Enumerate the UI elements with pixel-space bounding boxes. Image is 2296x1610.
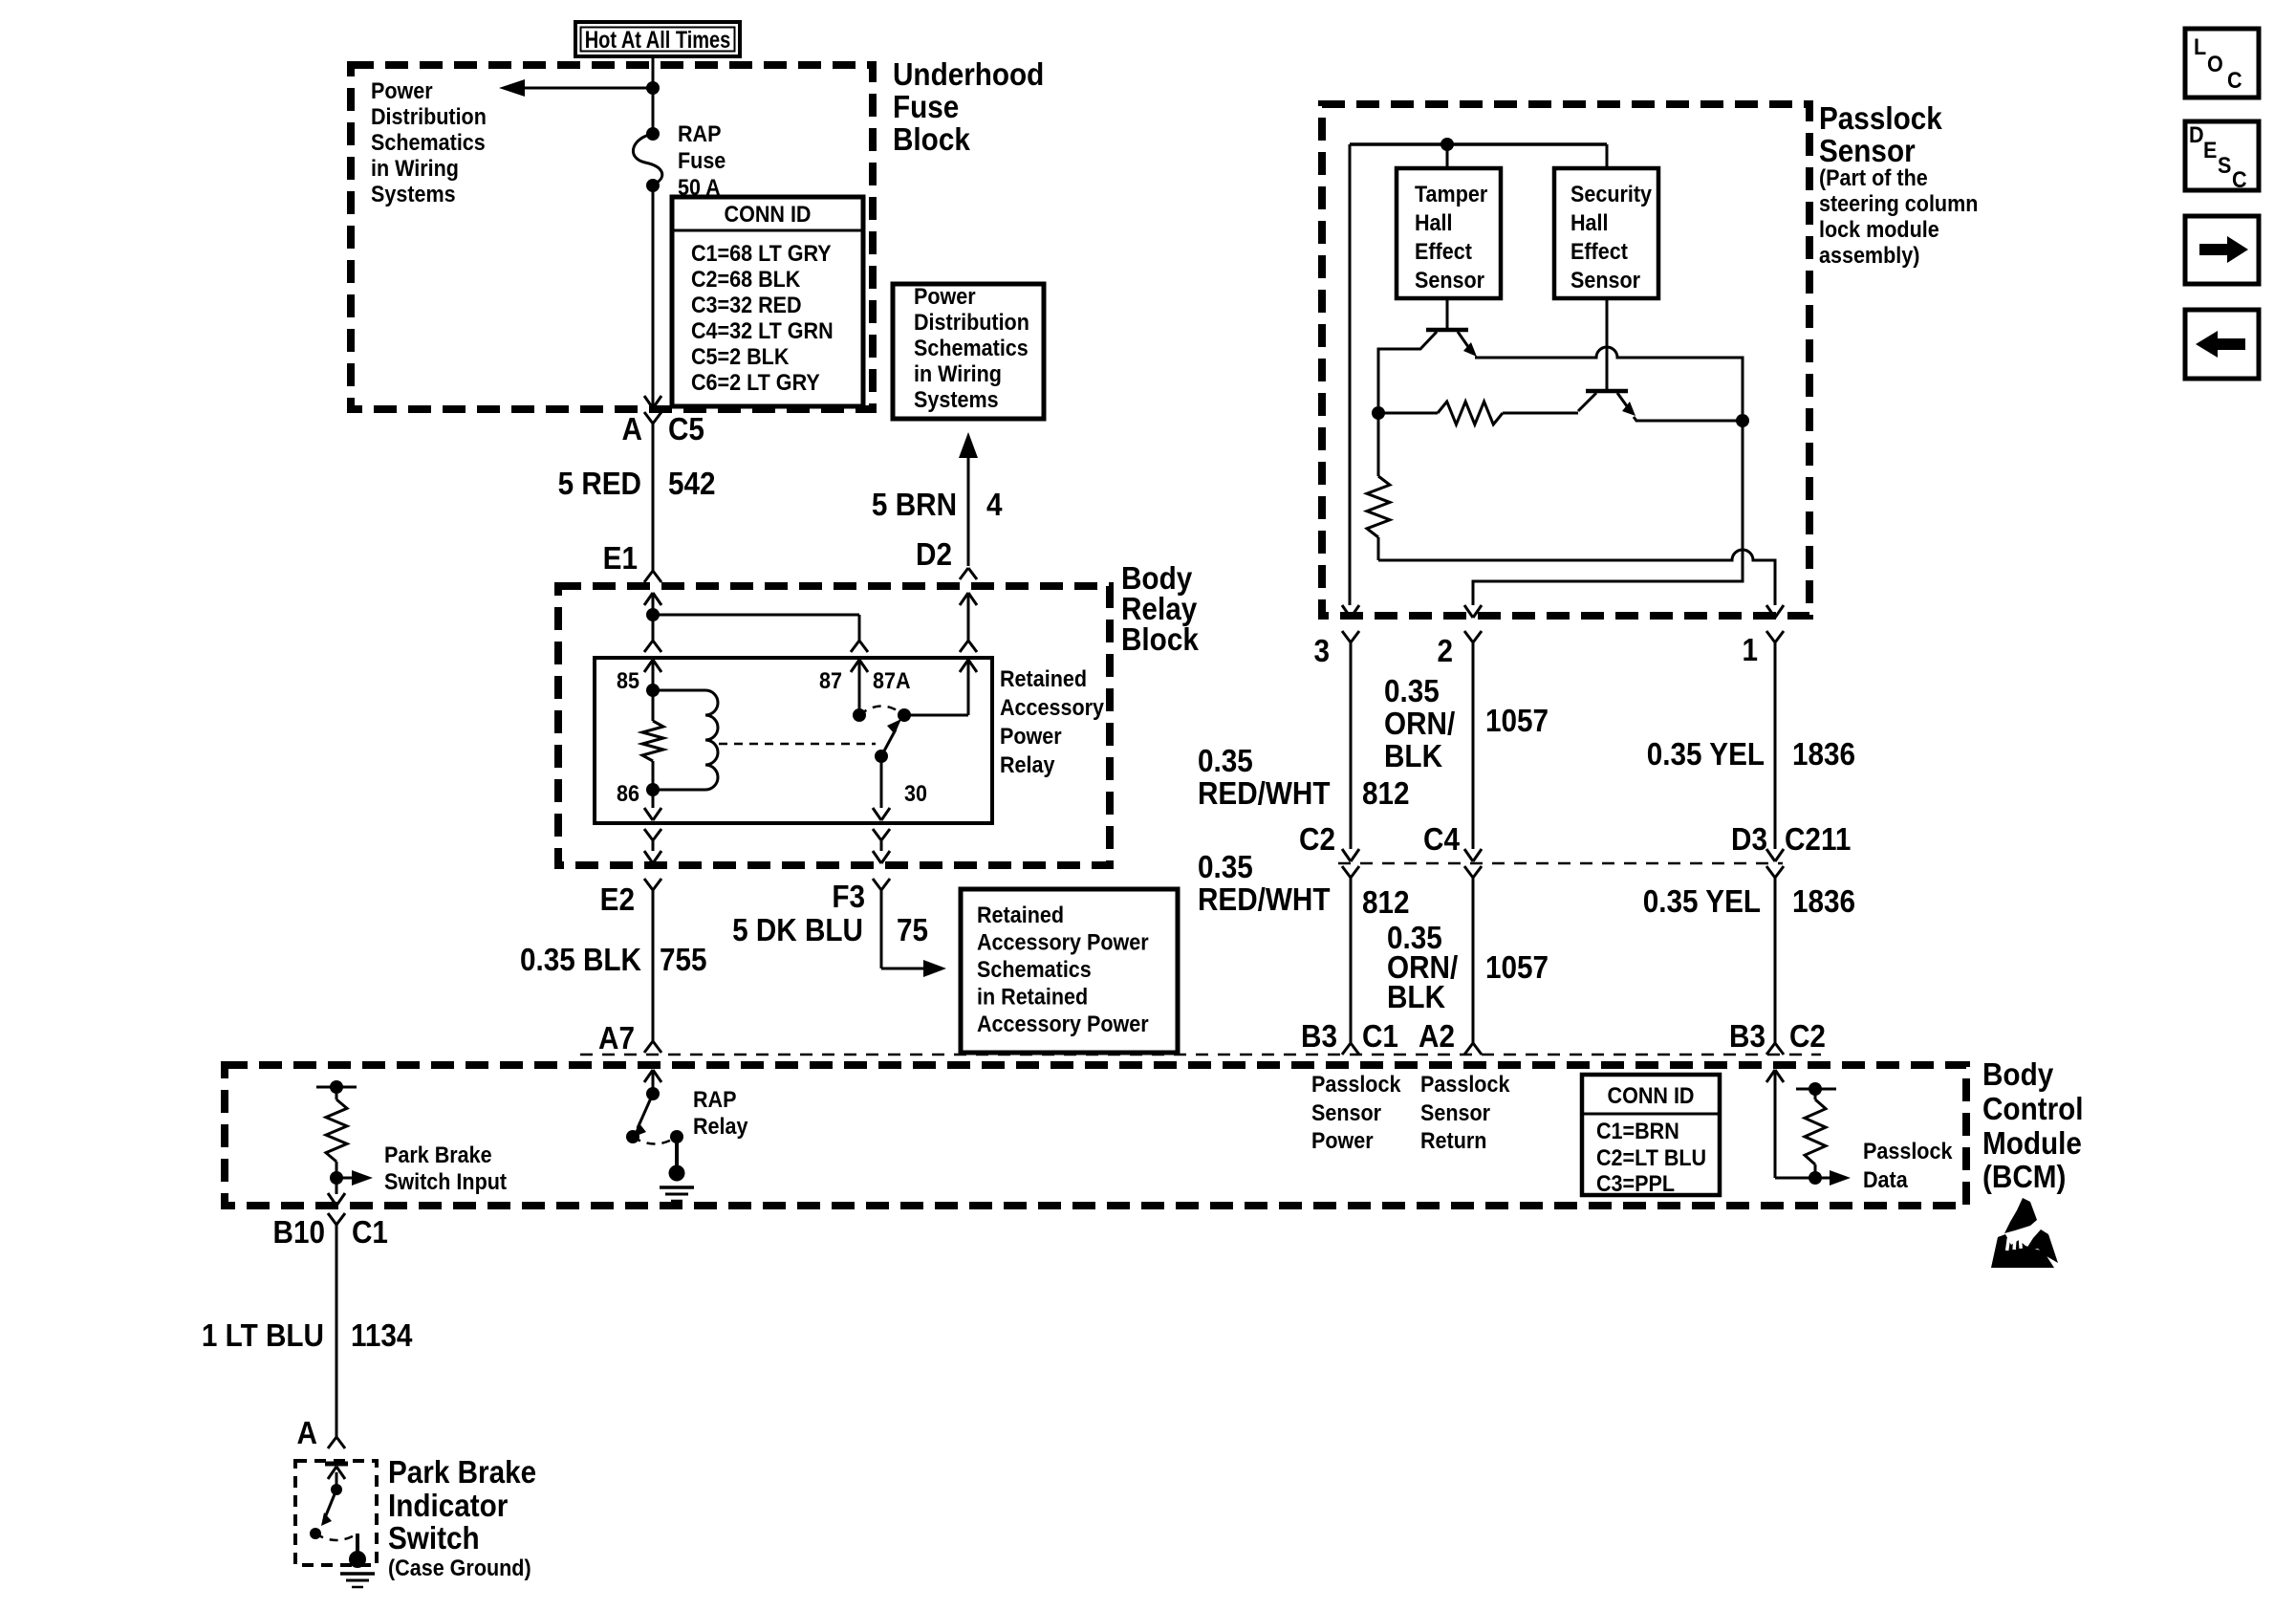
- svg-text:1 LT BLU: 1 LT BLU: [202, 1318, 324, 1354]
- svg-text:RAP: RAP: [693, 1086, 737, 1113]
- svg-text:B10: B10: [273, 1215, 325, 1251]
- svg-text:Retained: Retained: [977, 902, 1064, 928]
- svg-text:Hot At All Times: Hot At All Times: [585, 27, 731, 54]
- svg-text:Power: Power: [914, 283, 976, 310]
- svg-text:0.35: 0.35: [1198, 744, 1253, 779]
- svg-text:Relay: Relay: [693, 1113, 748, 1140]
- svg-text:Fuse: Fuse: [678, 147, 726, 174]
- svg-text:1134: 1134: [351, 1318, 413, 1354]
- svg-text:Indicator: Indicator: [388, 1489, 508, 1524]
- svg-text:75: 75: [897, 913, 928, 948]
- svg-text:C1: C1: [1362, 1019, 1398, 1055]
- svg-text:Schematics: Schematics: [914, 335, 1029, 361]
- svg-text:Block: Block: [1121, 622, 1199, 658]
- svg-text:C: C: [2232, 166, 2247, 193]
- svg-text:85: 85: [617, 667, 639, 694]
- svg-text:C1=68 LT GRY: C1=68 LT GRY: [691, 240, 832, 267]
- svg-text:1057: 1057: [1485, 704, 1549, 739]
- svg-text:A: A: [622, 412, 642, 447]
- svg-text:Sensor: Sensor: [1311, 1099, 1381, 1126]
- svg-text:87A: 87A: [873, 667, 911, 694]
- svg-text:A7: A7: [598, 1021, 635, 1056]
- svg-text:assembly): assembly): [1819, 242, 1919, 269]
- svg-text:0.35: 0.35: [1198, 850, 1253, 885]
- svg-text:Underhood: Underhood: [893, 57, 1044, 93]
- svg-text:Systems: Systems: [914, 386, 999, 413]
- svg-text:CONN ID: CONN ID: [725, 201, 812, 228]
- svg-text:C1=BRN: C1=BRN: [1596, 1118, 1679, 1144]
- svg-text:C4: C4: [1423, 822, 1460, 858]
- svg-text:4: 4: [986, 488, 1003, 523]
- svg-text:D2: D2: [916, 537, 952, 573]
- svg-text:C2: C2: [1789, 1019, 1826, 1055]
- svg-text:1: 1: [1742, 633, 1758, 668]
- svg-text:Park Brake: Park Brake: [388, 1455, 536, 1490]
- svg-text:3: 3: [1313, 634, 1330, 669]
- svg-text:0.35: 0.35: [1384, 674, 1440, 709]
- svg-text:Sensor: Sensor: [1570, 267, 1640, 294]
- svg-text:0.35 BLK: 0.35 BLK: [520, 943, 641, 978]
- svg-text:L: L: [2194, 33, 2206, 60]
- svg-text:542: 542: [668, 467, 716, 502]
- svg-text:Hall: Hall: [1570, 209, 1609, 236]
- svg-text:C6=2 LT GRY: C6=2 LT GRY: [691, 369, 820, 396]
- svg-text:Systems: Systems: [371, 181, 456, 207]
- svg-text:Passlock: Passlock: [1819, 101, 1942, 137]
- svg-text:C211: C211: [1785, 822, 1851, 858]
- svg-text:0.35 YEL: 0.35 YEL: [1647, 737, 1765, 772]
- svg-text:Module: Module: [1982, 1126, 2082, 1162]
- svg-text:30: 30: [904, 780, 927, 807]
- svg-text:ORN/: ORN/: [1384, 707, 1455, 742]
- svg-text:CONN ID: CONN ID: [1608, 1082, 1695, 1109]
- svg-text:C2: C2: [1299, 822, 1335, 858]
- svg-text:Schematics: Schematics: [977, 956, 1092, 983]
- svg-text:1836: 1836: [1792, 737, 1855, 772]
- svg-text:812: 812: [1362, 776, 1410, 812]
- svg-text:5 DK BLU: 5 DK BLU: [732, 913, 863, 948]
- svg-text:C5=2 BLK: C5=2 BLK: [691, 343, 790, 370]
- svg-text:Accessory: Accessory: [1000, 694, 1104, 721]
- svg-text:Power: Power: [1000, 723, 1062, 750]
- svg-text:Fuse: Fuse: [893, 90, 959, 125]
- svg-text:BLK: BLK: [1387, 980, 1445, 1015]
- svg-text:Switch Input: Switch Input: [384, 1168, 507, 1195]
- svg-text:steering column: steering column: [1819, 190, 1978, 217]
- svg-text:Tamper: Tamper: [1415, 181, 1487, 207]
- svg-text:E2: E2: [600, 882, 635, 918]
- svg-text:C5: C5: [668, 412, 704, 447]
- svg-text:D: D: [2189, 121, 2204, 148]
- svg-text:Park Brake: Park Brake: [384, 1142, 492, 1168]
- svg-text:0.35 YEL: 0.35 YEL: [1643, 884, 1761, 920]
- svg-text:86: 86: [617, 780, 639, 807]
- svg-text:812: 812: [1362, 885, 1410, 921]
- svg-text:O: O: [2207, 51, 2223, 77]
- svg-text:Sensor: Sensor: [1420, 1099, 1490, 1126]
- svg-text:C3=PPL: C3=PPL: [1596, 1170, 1675, 1197]
- svg-text:Block: Block: [893, 122, 970, 158]
- svg-text:C: C: [2227, 67, 2242, 94]
- svg-text:Schematics: Schematics: [371, 129, 486, 156]
- svg-text:Retained: Retained: [1000, 665, 1087, 692]
- svg-text:87: 87: [819, 667, 842, 694]
- svg-text:Control: Control: [1982, 1092, 2084, 1127]
- svg-text:Effect: Effect: [1570, 238, 1628, 265]
- svg-text:Passlock: Passlock: [1863, 1138, 1953, 1164]
- svg-text:Distribution: Distribution: [371, 103, 487, 130]
- svg-text:RED/WHT: RED/WHT: [1198, 776, 1331, 812]
- svg-text:Switch: Switch: [388, 1521, 480, 1556]
- svg-text:755: 755: [660, 943, 707, 978]
- svg-text:2: 2: [1437, 634, 1453, 669]
- svg-text:5 BRN: 5 BRN: [872, 488, 957, 523]
- svg-text:Passlock: Passlock: [1311, 1071, 1401, 1098]
- svg-text:B3: B3: [1301, 1019, 1337, 1055]
- svg-text:Effect: Effect: [1415, 238, 1472, 265]
- svg-text:Accessory Power: Accessory Power: [977, 1011, 1149, 1037]
- svg-text:in Retained: in Retained: [977, 983, 1088, 1010]
- svg-text:Distribution: Distribution: [914, 309, 1029, 336]
- svg-text:Sensor: Sensor: [1415, 267, 1484, 294]
- svg-text:(Part of the: (Part of the: [1819, 164, 1928, 191]
- svg-text:Passlock: Passlock: [1420, 1071, 1510, 1098]
- svg-text:RAP: RAP: [678, 120, 722, 147]
- svg-text:A: A: [297, 1416, 317, 1451]
- svg-text:C3=32 RED: C3=32 RED: [691, 292, 802, 318]
- svg-text:lock module: lock module: [1819, 216, 1939, 243]
- svg-text:B3: B3: [1729, 1019, 1765, 1055]
- svg-text:Relay: Relay: [1000, 751, 1055, 778]
- svg-text:C4=32 LT GRN: C4=32 LT GRN: [691, 317, 834, 344]
- svg-text:in Wiring: in Wiring: [914, 360, 1002, 387]
- svg-text:Security: Security: [1570, 181, 1652, 207]
- svg-text:Power: Power: [1311, 1127, 1374, 1154]
- svg-text:E1: E1: [603, 541, 638, 577]
- svg-text:C1: C1: [352, 1215, 388, 1251]
- svg-text:F3: F3: [832, 880, 865, 915]
- svg-text:S: S: [2218, 152, 2231, 179]
- svg-text:C2=LT BLU: C2=LT BLU: [1596, 1144, 1706, 1171]
- svg-text:in Wiring: in Wiring: [371, 155, 459, 182]
- svg-text:1836: 1836: [1792, 884, 1855, 920]
- svg-text:Return: Return: [1420, 1127, 1486, 1154]
- svg-text:(Case Ground): (Case Ground): [388, 1555, 531, 1581]
- svg-text:Body: Body: [1982, 1057, 2054, 1093]
- svg-text:RED/WHT: RED/WHT: [1198, 882, 1331, 918]
- svg-text:A2: A2: [1419, 1019, 1455, 1055]
- svg-text:1057: 1057: [1485, 950, 1549, 986]
- svg-text:BLK: BLK: [1384, 739, 1442, 774]
- svg-text:Hall: Hall: [1415, 209, 1453, 236]
- svg-text:Data: Data: [1863, 1166, 1908, 1193]
- svg-text:(BCM): (BCM): [1982, 1160, 2066, 1195]
- svg-text:D3: D3: [1731, 822, 1767, 858]
- svg-text:Power: Power: [371, 77, 433, 104]
- svg-text:E: E: [2203, 137, 2217, 163]
- svg-text:Accessory Power: Accessory Power: [977, 928, 1149, 955]
- svg-text:C2=68 BLK: C2=68 BLK: [691, 266, 801, 293]
- svg-text:5 RED: 5 RED: [558, 467, 641, 502]
